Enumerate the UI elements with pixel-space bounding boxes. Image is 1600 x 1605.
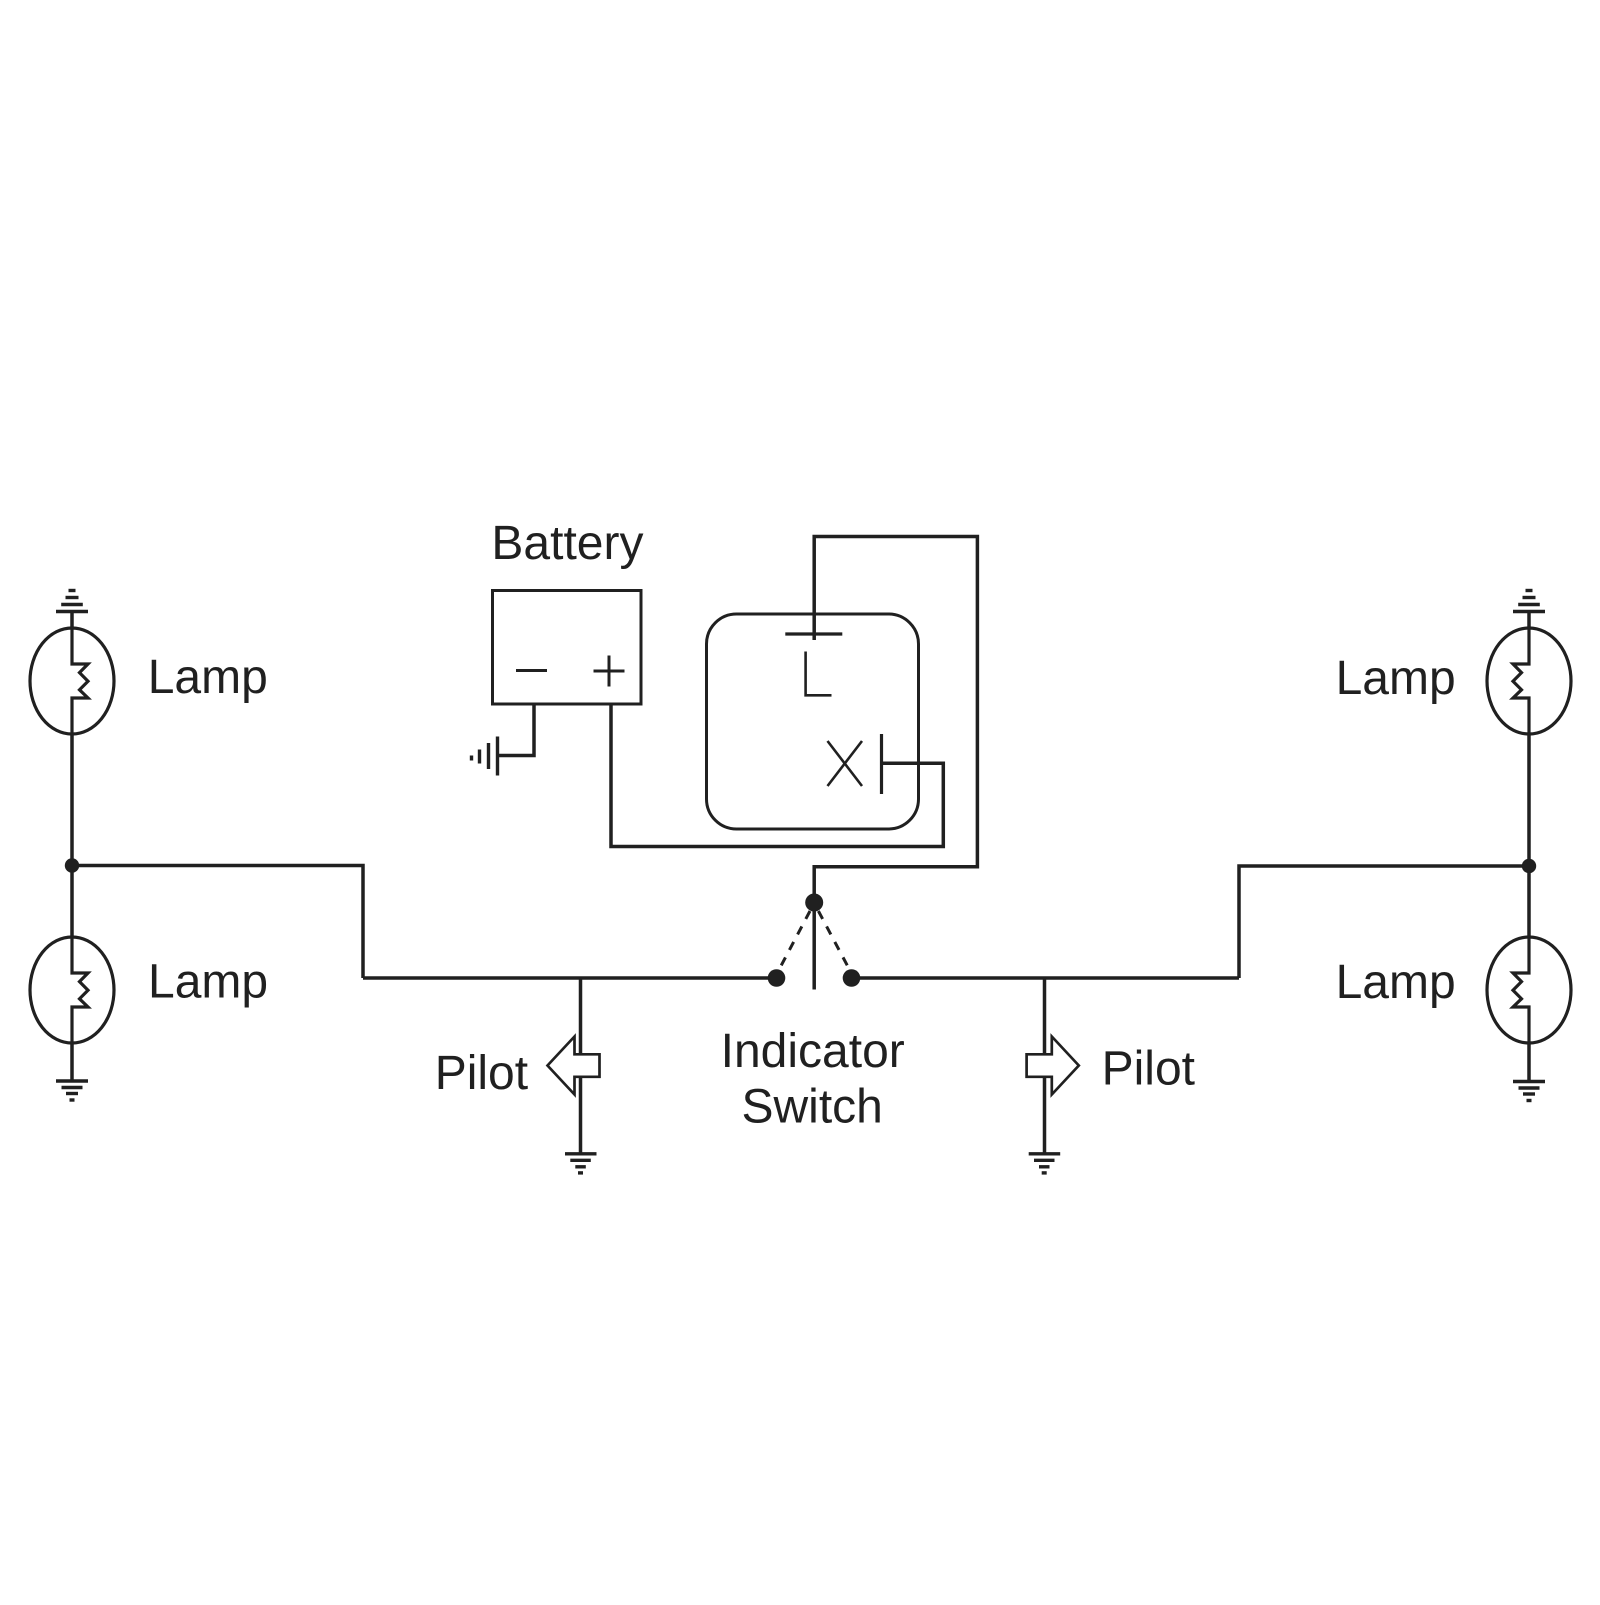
wire (left step: node A right, then down to bus) <box>72 866 363 979</box>
svg-text:Indicator: Indicator <box>721 1025 905 1078</box>
svg-text:Lamp: Lamp <box>148 956 268 1009</box>
ground G4 (left pilot) <box>565 1154 597 1173</box>
ground G1 (top-left, above upper left lamp) <box>56 591 88 612</box>
ground G3 (battery, sideways left) <box>472 737 498 776</box>
node A (left junction dot) <box>65 858 79 872</box>
wire (right pilot drop to ground) <box>1043 978 1047 1154</box>
battery minus terminal mark <box>516 669 547 672</box>
pin label X <box>828 741 863 786</box>
wire (upper left lamp down to node A) <box>70 734 74 938</box>
node (switch right contact dot) <box>843 969 861 987</box>
switch SW1 lever (solid) <box>812 911 816 990</box>
svg-text:Switch: Switch <box>742 1081 883 1134</box>
wire (bus left segment to switch left contact) <box>363 976 777 980</box>
svg-text:Pilot: Pilot <box>1102 1043 1195 1096</box>
svg-text:Lamp: Lamp <box>1336 956 1456 1009</box>
wire (right step: bus up and right to node B) <box>1239 866 1529 978</box>
wire (top-right ground to lamp) <box>1527 612 1531 630</box>
battery B1 (box) <box>493 591 642 705</box>
pilot indicator arrow (left) <box>548 1037 600 1095</box>
flasher unit U1 (rounded box) <box>707 614 919 829</box>
node B (right junction dot) <box>1522 859 1536 873</box>
ground G7 (below lower right lamp) <box>1513 1082 1545 1101</box>
wire (battery minus to chassis ground) <box>498 704 535 756</box>
wire (battery plus down, right, and up to X terminal) <box>611 704 943 847</box>
ground G6 (top-right, above upper right lamp) <box>1513 591 1545 612</box>
lamp LP1 (upper left) <box>30 628 114 734</box>
node (switch common dot) <box>805 894 823 912</box>
wire (lower right lamp to ground) <box>1527 1043 1531 1082</box>
wire (lower left lamp to ground) <box>70 1043 74 1081</box>
lamp LP3 (upper right) <box>1487 628 1571 734</box>
node (switch left contact dot) <box>768 969 786 987</box>
wire (L terminal up, over and down to switch common) <box>814 537 977 898</box>
switch SW1 dashed throw (right) <box>818 911 850 972</box>
lamp LP2 (lower left) <box>30 937 114 1043</box>
svg-text:Pilot: Pilot <box>435 1047 528 1100</box>
svg-text:Battery: Battery <box>491 517 643 570</box>
ground G5 (right pilot) <box>1029 1154 1061 1173</box>
svg-text:Lamp: Lamp <box>1336 652 1456 705</box>
wire (left pilot drop to ground) <box>579 978 583 1154</box>
svg-text:Lamp: Lamp <box>148 651 268 704</box>
terminal bar X <box>880 734 883 794</box>
lamp LP4 (lower right) <box>1487 937 1571 1043</box>
terminal bar L <box>785 632 842 635</box>
label: Indicator Switch <box>721 1025 905 1134</box>
pilot indicator arrow (right) <box>1027 1037 1079 1095</box>
switch SW1 dashed throw (left) <box>778 911 810 972</box>
ground G2 (below lower left lamp) <box>56 1081 88 1100</box>
battery plus terminal mark <box>594 656 625 687</box>
wire (bus right segment from switch right contact) <box>852 976 1240 980</box>
wire (upper right lamp down through node B to lower lamp) <box>1527 734 1531 938</box>
wire (top-left ground to lamp) <box>70 612 74 630</box>
pin label L <box>806 652 832 696</box>
